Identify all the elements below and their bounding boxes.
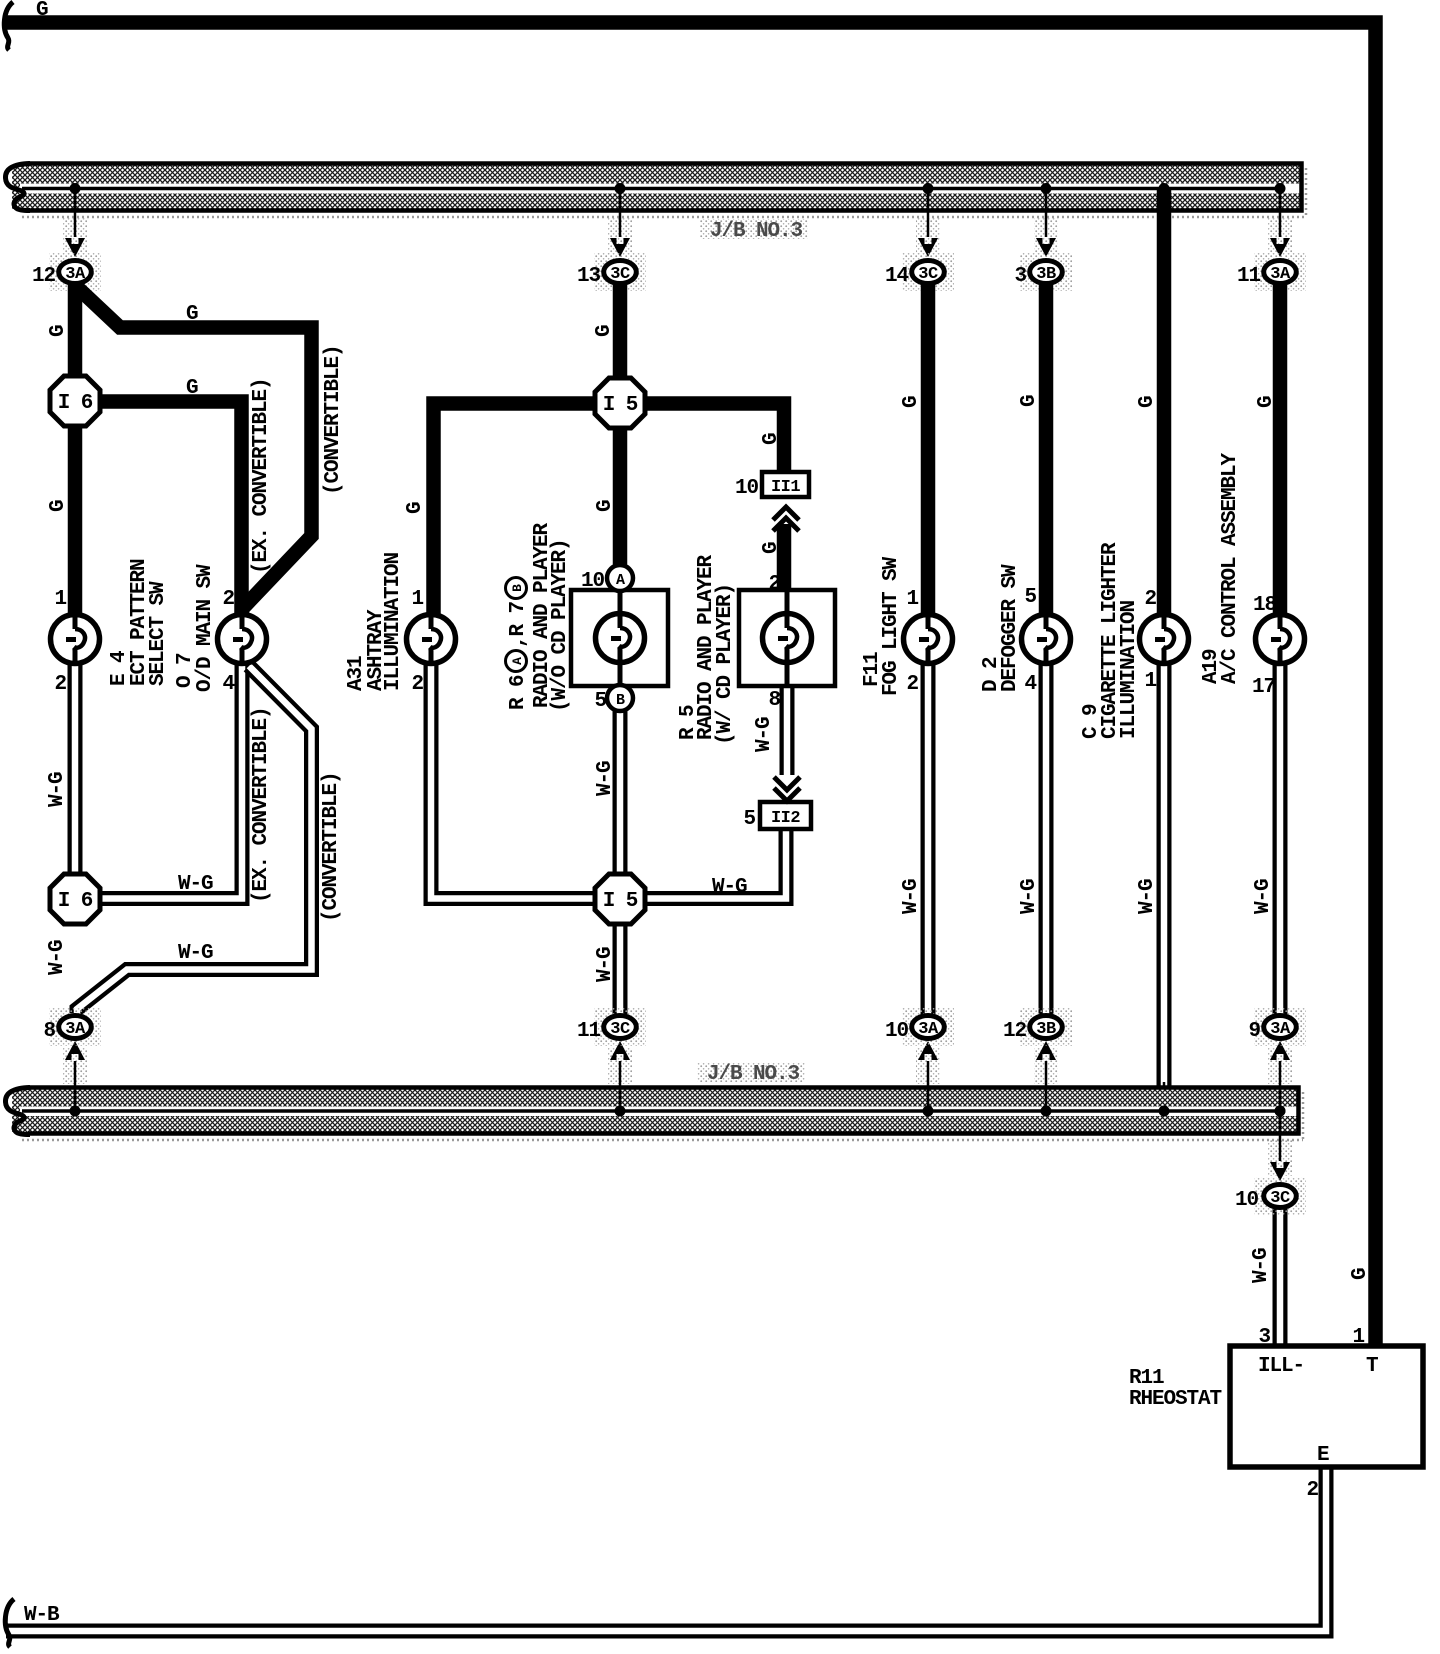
D2 DEFOGGER SW illumination bulb <box>1022 615 1071 664</box>
wire W-G: A/C CONTROL ASSEMBLY pin 17 down to 9(3A) <box>1273 662 1288 1014</box>
svg-text:W-G: W-G <box>1136 879 1159 914</box>
svg-text:W-G: W-G <box>900 879 923 914</box>
junction block J/B NO.3 (lower bus) <box>5 1088 1303 1141</box>
svg-text:3B: 3B <box>1036 265 1056 284</box>
R6/R7 radio illumination bulb <box>596 614 645 663</box>
pin 5(B) circle of radio <box>607 685 633 711</box>
svg-text:T: T <box>1366 1355 1378 1378</box>
svg-text:W-G: W-G <box>594 947 617 982</box>
arrow into connector 10(3C) <box>1270 1162 1290 1181</box>
wire W-G: O/D MAIN SW pin 4 to I6 lower (EX. CONVERTIBLE) <box>99 662 242 899</box>
svg-text:(CONVERTIBLE): (CONVERTIBLE) <box>322 345 345 495</box>
svg-text:3A: 3A <box>1270 1020 1291 1039</box>
connector 10(3A) lower <box>902 1008 954 1046</box>
wire W-G: I5 lower down to 11(3C) <box>613 922 628 1014</box>
svg-text:3: 3 <box>1014 265 1026 288</box>
svg-text:10: 10 <box>581 570 605 593</box>
svg-text:G: G <box>1018 395 1041 407</box>
thin link C9 wire to lower bus wire <box>1163 1082 1166 1111</box>
svg-text:3C: 3C <box>1270 1189 1290 1208</box>
label J/B NO.3 (upper) <box>700 219 808 243</box>
arrow into connector 11(3A) <box>1270 238 1290 257</box>
node: tap on upper bus at x=1164 (C9 feed) <box>1159 183 1170 194</box>
svg-text:2: 2 <box>1306 1479 1318 1502</box>
R5 radio illumination bulb <box>763 614 812 663</box>
wire W-B: rheostat E pin 2 to ground (bottom) <box>6 1466 1326 1631</box>
svg-text:W-G: W-G <box>1250 1248 1273 1283</box>
wire G: II1 to radio w/ CD pin 2 <box>777 524 792 592</box>
connector 14(3C) upper <box>902 253 954 291</box>
svg-text:A/C CONTROL ASSEMBLY: A/C CONTROL ASSEMBLY <box>1219 452 1242 684</box>
wire G: 3(3B) down to DEFOGGER SW pin 5 <box>1039 284 1054 618</box>
node: tap on upper bus at x=1280 <box>1268 183 1292 254</box>
svg-text:1: 1 <box>411 588 423 611</box>
wire G: bus tap down to CIGARETTE LIGHTER pin 2 <box>1157 188 1172 618</box>
connector 10 II1 <box>762 472 809 497</box>
wire G: 13(3C) down to I5 <box>613 284 628 380</box>
label J/B NO.3 (lower) <box>697 1062 805 1086</box>
wire W-G: ASHTRAY ILLUMINATION pin 2 to I5 lower <box>431 662 598 899</box>
svg-text:G: G <box>1136 396 1159 408</box>
svg-text:I 5: I 5 <box>603 890 638 913</box>
junction connector I6 at (75,401) <box>50 376 100 426</box>
wire G: 11(3A) down to A/C CONTROL ASSEMBLY pin 18 <box>1273 284 1288 618</box>
svg-text:(EX. CONVERTIBLE): (EX. CONVERTIBLE) <box>250 378 273 574</box>
svg-text:2: 2 <box>411 673 423 696</box>
svg-text:W-G: W-G <box>753 717 776 752</box>
arrow into connector 3(3B) <box>1036 238 1056 257</box>
wire W-G: DEFOGGER SW pin 4 down to 12(3B) <box>1039 662 1054 1014</box>
F11 FOG LIGHT SW illumination bulb <box>904 615 953 664</box>
svg-text:II1: II1 <box>771 478 800 497</box>
svg-text:E: E <box>1317 1444 1329 1467</box>
node: tap on upper bus at x=928 <box>916 183 940 254</box>
wire G: I5 left branch to ASHTRAY ILLUMINATION pin 1 <box>434 404 598 619</box>
O7 O/D MAIN SW illumination bulb <box>218 615 267 664</box>
svg-text:1: 1 <box>1144 670 1156 693</box>
svg-text:G: G <box>594 500 617 512</box>
node: tap on lower bus at x=75 <box>63 1048 87 1117</box>
svg-text:8: 8 <box>768 689 780 712</box>
svg-text:,R 7: ,R 7 <box>507 601 530 648</box>
node: tap on upper bus at x=620 <box>608 183 632 254</box>
svg-text:8: 8 <box>43 1020 55 1043</box>
junction connector I6 at (75,899) <box>50 874 100 924</box>
svg-text:10: 10 <box>885 1020 909 1043</box>
svg-text:G: G <box>186 303 198 326</box>
svg-text:O/D MAIN SW: O/D MAIN SW <box>194 564 217 692</box>
svg-text:9: 9 <box>1248 1020 1260 1043</box>
arrow into connector 8(3A) <box>65 1041 85 1060</box>
svg-text:10: 10 <box>1235 1189 1259 1212</box>
svg-text:G: G <box>186 377 198 400</box>
svg-text:2: 2 <box>768 573 780 596</box>
svg-text:11: 11 <box>1237 265 1261 288</box>
component R11 RHEOSTAT <box>1230 1346 1423 1467</box>
component box R6(A),R7(B) RADIO AND PLAYER (W/O CD PLAYER) <box>571 590 668 696</box>
svg-text:W-G: W-G <box>178 873 213 896</box>
node: tap on lower bus at x=1046 <box>1034 1048 1058 1117</box>
svg-text:G: G <box>36 0 48 22</box>
C9 CIGARETTE LIGHTER ILLUMINATION bulb <box>1140 615 1189 664</box>
connector 5 II2 <box>760 802 811 829</box>
continuation squiggle bottom-left <box>5 1599 14 1647</box>
node: tap on upper bus at x=75 <box>63 183 87 254</box>
node: tap on lower bus at x=620 <box>608 1048 632 1117</box>
svg-text:5: 5 <box>1024 586 1036 609</box>
node: tap on upper bus at x=1046 <box>1034 183 1058 254</box>
svg-text:B: B <box>510 584 525 592</box>
chevron arrows into II2 <box>774 777 800 801</box>
connector 11(3A) upper <box>1254 253 1306 291</box>
wire W-G: O/D MAIN SW pin 4 to 8(3A) (CONVERTIBLE) <box>77 666 312 1013</box>
svg-text:4: 4 <box>1024 673 1036 696</box>
wire G: 12(3A) branch (CONVERTIBLE) to O/D MAIN SW pin 2 <box>78 288 312 618</box>
connector 10(3C) <box>1254 1177 1306 1215</box>
A19 A/C CONTROL ASSEMBLY illumination bulb <box>1256 615 1305 664</box>
svg-text:G: G <box>760 433 783 445</box>
svg-text:(CONVERTIBLE): (CONVERTIBLE) <box>320 772 343 922</box>
wire W-G: FOG LIGHT SW pin 2 down to 10(3A) <box>921 662 936 1014</box>
arrow into connector 12(3A) <box>65 238 85 257</box>
node: C9 wire joins lower bus <box>1159 1106 1170 1117</box>
wire W-G: radio w/ CD pin 8 down to II2 <box>780 688 795 775</box>
svg-text:W-G: W-G <box>712 876 747 899</box>
wire W-G: ECT PATTERN SELECT SW pin 2 down to I6 (lower) <box>68 662 83 876</box>
svg-text:2: 2 <box>222 588 234 611</box>
chevron arrows into II1 <box>773 507 799 531</box>
connector 11(3C) lower <box>594 1008 646 1046</box>
svg-text:3A: 3A <box>918 1020 939 1039</box>
svg-text:2: 2 <box>1144 588 1156 611</box>
svg-text:RHEOSTAT: RHEOSTAT <box>1129 1388 1222 1411</box>
svg-text:W-G: W-G <box>1252 879 1275 914</box>
svg-text:12: 12 <box>1003 1020 1027 1043</box>
svg-text:W-G: W-G <box>594 761 617 796</box>
arrow into connector 13(3C) <box>610 238 630 257</box>
component box R5 RADIO AND PLAYER (W/ CD PLAYER) <box>739 590 835 686</box>
svg-text:(W/ CD PLAYER): (W/ CD PLAYER) <box>714 584 737 745</box>
A31 ASHTRAY ILLUMINATION bulb <box>407 615 456 664</box>
wire G: I6 down to ECT PATTERN SELECT SW pin 1 <box>68 424 83 618</box>
connector 8(3A) lower <box>49 1008 101 1046</box>
svg-text:12: 12 <box>32 265 56 288</box>
svg-text:G: G <box>760 542 783 554</box>
svg-text:1: 1 <box>1352 1326 1364 1349</box>
wire G: 12(3A) down to I6 <box>68 284 83 379</box>
svg-text:W-G: W-G <box>1018 879 1041 914</box>
arrow into connector 14(3C) <box>918 238 938 257</box>
svg-text:3A: 3A <box>1270 265 1291 284</box>
wire G: 14(3C) down to FOG LIGHT SW pin 1 <box>921 284 936 618</box>
svg-text:3C: 3C <box>610 1020 630 1039</box>
wire W-G: II2 to I5 lower <box>643 828 786 899</box>
svg-text:ILLUMINATION: ILLUMINATION <box>382 552 405 691</box>
svg-text:W-G: W-G <box>46 772 69 807</box>
svg-text:W-G: W-G <box>46 940 69 975</box>
continuation squiggle top-left <box>4 2 13 50</box>
junction block J/B NO.3 (upper bus) <box>5 164 1306 218</box>
svg-text:1: 1 <box>906 588 918 611</box>
connector 13(3C) upper <box>594 253 646 291</box>
svg-text:G: G <box>404 502 427 514</box>
wire W-G: 10(3C) down to rheostat ILL- pin 3 <box>1273 1209 1288 1347</box>
wire W-G: radio w/o CD pin 5(B) down to I5 lower <box>613 710 628 876</box>
arrow into connector 9(3A) <box>1270 1041 1290 1060</box>
connector 3(3B) upper <box>1020 253 1072 291</box>
svg-text:SELECT SW: SELECT SW <box>147 581 170 686</box>
wire G: I5 right branch to II1 <box>643 404 784 475</box>
svg-text:ILL-: ILL- <box>1258 1355 1304 1378</box>
svg-text:G: G <box>900 396 923 408</box>
svg-text:3A: 3A <box>65 265 86 284</box>
svg-text:ILLUMINATION: ILLUMINATION <box>1118 600 1141 739</box>
svg-text:5: 5 <box>594 690 606 713</box>
connector 12(3B) lower <box>1020 1008 1072 1046</box>
svg-text:A: A <box>616 572 625 589</box>
svg-text:FOG LIGHT SW: FOG LIGHT SW <box>880 556 903 696</box>
node: tap on lower bus at x=928 <box>916 1048 940 1117</box>
junction connector I5 at (620,899) <box>595 874 645 924</box>
svg-text:G: G <box>47 325 70 337</box>
svg-text:(EX. CONVERTIBLE): (EX. CONVERTIBLE) <box>250 707 273 903</box>
svg-text:2: 2 <box>906 673 918 696</box>
svg-text:14: 14 <box>885 265 909 288</box>
svg-text:DEFOGGER SW: DEFOGGER SW <box>999 564 1022 692</box>
junction connector I5 at (620,403) <box>595 378 645 428</box>
wire W-G: CIGARETTE LIGHTER pin 1 down into lower bus <box>1157 662 1172 1087</box>
svg-text:I 5: I 5 <box>603 394 638 417</box>
svg-text:1: 1 <box>54 588 66 611</box>
node: tap under lower bus to 10(3C) <box>1268 1106 1292 1177</box>
svg-text:3B: 3B <box>1036 1020 1056 1039</box>
svg-text:I 6: I 6 <box>58 392 93 415</box>
label R11 RHEOSTAT <box>1129 1367 1222 1411</box>
svg-text:13: 13 <box>577 265 601 288</box>
svg-text:G: G <box>593 325 616 337</box>
pin 10(A) circle of radio <box>607 565 633 591</box>
svg-text:18: 18 <box>1253 594 1277 617</box>
svg-text:R 6: R 6 <box>507 675 530 710</box>
label R6(A),R7(B) designator <box>506 578 531 711</box>
svg-text:J/B NO.3: J/B NO.3 <box>707 1063 800 1086</box>
wire G: I6 to O/D MAIN SW pin 2 (EX. CONVERTIBLE) <box>98 402 242 619</box>
svg-text:J/B NO.3: J/B NO.3 <box>710 220 803 243</box>
wire: G feed from fuse (top, turns down right side to rheostat T) <box>5 23 1376 1347</box>
svg-text:II2: II2 <box>771 809 800 828</box>
connector 12(3A) upper <box>49 253 101 291</box>
svg-text:3: 3 <box>1258 1326 1270 1349</box>
svg-text:G: G <box>1349 1268 1372 1280</box>
svg-text:B: B <box>616 692 625 709</box>
arrow into connector 11(3C) <box>610 1041 630 1060</box>
svg-text:R11: R11 <box>1129 1367 1164 1390</box>
svg-text:10: 10 <box>735 477 759 500</box>
node: tap on lower bus at x=1280 <box>1268 1048 1292 1117</box>
svg-text:G: G <box>1255 396 1278 408</box>
svg-text:2: 2 <box>54 673 66 696</box>
svg-text:17: 17 <box>1252 676 1276 699</box>
svg-text:A: A <box>510 657 525 665</box>
svg-text:G: G <box>47 500 70 512</box>
arrow into connector 10(3A) <box>918 1041 938 1060</box>
svg-text:I 6: I 6 <box>58 890 93 913</box>
svg-text:11: 11 <box>577 1020 601 1043</box>
svg-text:W-B: W-B <box>24 1604 60 1627</box>
bus internal wire (lower) <box>22 1109 1280 1113</box>
arrow into connector 12(3B) <box>1036 1041 1056 1060</box>
svg-text:4: 4 <box>222 673 234 696</box>
wire G: I5 down to radio pin 10(A) <box>613 426 628 566</box>
bus internal wire (upper) <box>22 187 1281 191</box>
svg-text:3A: 3A <box>65 1020 86 1039</box>
E4 ECT PATTERN SELECT SW illumination bulb <box>51 615 100 664</box>
svg-text:5: 5 <box>743 808 755 831</box>
connector 9(3A) lower <box>1254 1008 1306 1046</box>
svg-text:3C: 3C <box>918 265 938 284</box>
svg-text:(W/O CD PLAYER): (W/O CD PLAYER) <box>549 539 572 712</box>
svg-text:3C: 3C <box>610 265 630 284</box>
svg-text:W-G: W-G <box>178 942 213 965</box>
